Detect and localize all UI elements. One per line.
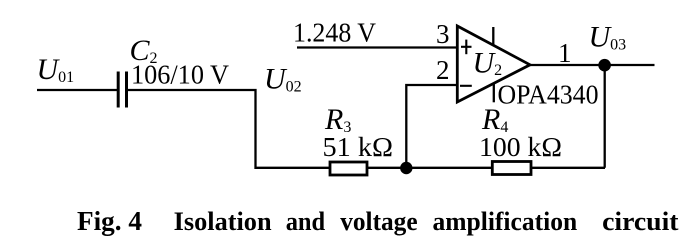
svg-text:3: 3 xyxy=(436,19,450,49)
svg-text:100 kΩ: 100 kΩ xyxy=(479,132,562,162)
svg-text:U03: U03 xyxy=(589,21,627,54)
svg-text:1.248 V: 1.248 V xyxy=(293,18,376,48)
svg-text:106/10 V: 106/10 V xyxy=(131,60,229,90)
svg-text:OPA4340: OPA4340 xyxy=(498,80,599,110)
svg-text:Fig. 4: Fig. 4 xyxy=(77,206,142,236)
svg-text:U02: U02 xyxy=(264,63,302,96)
svg-text:Isolationandvoltageamplificati: Isolationandvoltageamplificationcircuit xyxy=(174,207,679,236)
svg-text:U01: U01 xyxy=(37,53,75,86)
svg-text:2: 2 xyxy=(436,55,450,85)
svg-text:1: 1 xyxy=(558,38,572,68)
svg-text:51 kΩ: 51 kΩ xyxy=(323,132,394,162)
